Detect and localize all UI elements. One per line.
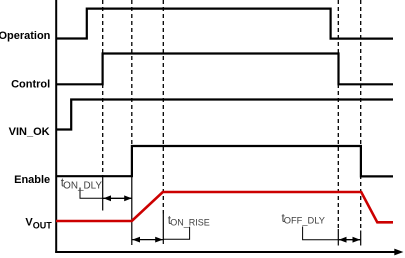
dashed timing line D2 — [131, 0, 133, 146]
dashed timing line D3 — [162, 0, 164, 214]
VIN_OK waveform — [56, 100, 393, 130]
tOFF_DLY arrowhead right — [353, 237, 361, 243]
svg-text:Enable: Enable — [14, 174, 50, 186]
tON_DLY arrowhead right — [124, 195, 132, 201]
extension line E5 — [360, 231, 362, 246]
svg-text:Operation: Operation — [0, 30, 51, 42]
tON_RISE arrowhead right — [155, 237, 163, 243]
y-axis — [55, 0, 57, 253]
tOFF_DLY arrowhead left — [339, 237, 347, 243]
time axis — [55, 251, 395, 253]
tON_RISE arrowhead left — [132, 237, 140, 243]
Operation waveform — [56, 9, 393, 39]
extension line E4 — [337, 229, 339, 246]
tON_RISE arrow line — [132, 239, 163, 241]
tON_DLY arrowhead left — [103, 195, 111, 201]
tON_RISE leader — [163, 227, 189, 240]
dashed timing line D4 — [337, 0, 339, 229]
svg-text:Control: Control — [11, 78, 50, 90]
extension line E2 — [131, 176, 133, 245]
time axis arrowhead — [394, 249, 403, 256]
extension line E3 — [162, 214, 164, 245]
dashed timing line D5 — [360, 0, 362, 231]
Control waveform — [56, 54, 393, 85]
tOFF_DLY leader — [303, 227, 339, 240]
tON_DLY arrow line — [103, 197, 132, 199]
tOFF_DLY arrow line — [339, 239, 361, 241]
Enable waveform — [56, 146, 393, 176]
extension line E1 — [102, 176, 104, 211]
svg-text:VIN_OK: VIN_OK — [9, 126, 50, 138]
dashed timing line D1 — [102, 0, 104, 176]
tON_DLY leader — [80, 188, 103, 199]
VOUT waveform — [56, 192, 393, 222]
